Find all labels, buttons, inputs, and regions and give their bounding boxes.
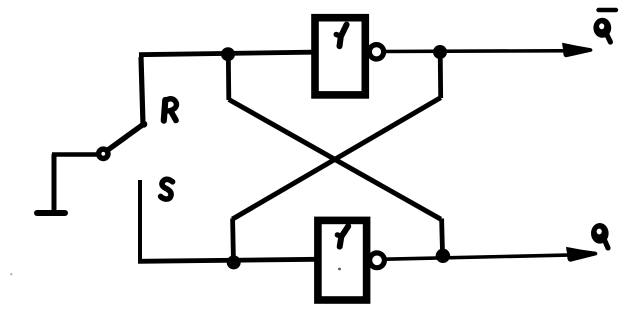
node J3 junction bottom-left <box>227 255 241 269</box>
switch SW1 blade <box>109 125 144 150</box>
wire J2 down <box>438 52 443 98</box>
switch SW1 pivot <box>96 146 111 161</box>
bubble U2 output <box>370 253 385 268</box>
node R contact <box>140 121 147 128</box>
wire A down to J4 <box>442 219 443 257</box>
arrowhead Q <box>566 247 597 262</box>
wire cross diagonal B <box>232 98 440 220</box>
label 1 in U1 <box>336 25 346 47</box>
wire ground to switch pivot <box>52 152 97 157</box>
wire top input horizontal <box>139 52 312 55</box>
wire cross diagonal A <box>229 100 441 220</box>
wire U2 output <box>385 255 583 260</box>
arrowhead Qbar <box>562 43 592 57</box>
bubble U1 output <box>369 45 383 59</box>
label 1 in U2 <box>337 226 348 246</box>
wire B down to J3 <box>230 219 236 264</box>
label Qbar overbar <box>599 8 617 12</box>
wire bottom input horizontal <box>138 259 315 261</box>
wire U1 output <box>382 49 581 53</box>
speck left margin <box>10 273 12 275</box>
label R <box>164 99 177 121</box>
inverter U1 <box>315 18 365 95</box>
label Qbar Q <box>593 18 611 42</box>
speck in U2 <box>338 268 341 271</box>
wire S contact down <box>138 180 142 261</box>
label Q <box>591 223 609 248</box>
node J4 junction bottom output <box>436 249 450 263</box>
ground <box>37 154 65 213</box>
node J1 junction top-left <box>221 47 235 61</box>
wire R contact up <box>141 57 143 125</box>
node J2 junction top output <box>433 45 447 59</box>
label S <box>161 179 173 199</box>
inverter U2 <box>318 220 367 300</box>
wire J1 down <box>226 54 231 100</box>
